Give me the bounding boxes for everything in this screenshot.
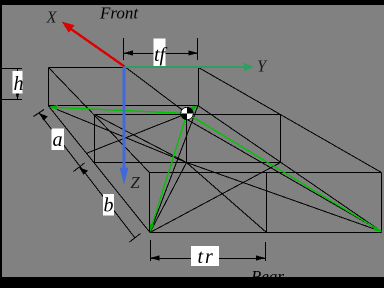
- a-b middle tick: [74, 163, 85, 172]
- body rear face bottom edge: [150, 232, 382, 234]
- svg-text:tr: tr: [198, 246, 215, 268]
- CG cross-section right edge: [280, 115, 282, 163]
- body front face right edge: [198, 68, 200, 106]
- CG cross-section top edge: [95, 114, 281, 116]
- svg-text:h: h: [14, 73, 24, 95]
- green link CG to front-right wheel: [187, 107, 196, 114]
- svg-text:X: X: [46, 8, 58, 27]
- svg-text:Rear: Rear: [250, 267, 284, 286]
- a-b middle arrowhead: [79, 167, 88, 175]
- CG vertical line: [186, 114, 188, 163]
- line origin to CG: [125, 67, 188, 114]
- CG link to rear-right wheel (black): [187, 120, 382, 232]
- a-b end tick: [130, 234, 141, 243]
- slant edge top-left: [49, 68, 150, 173]
- cross-section bottom-right to rear-left wheel: [150, 163, 281, 233]
- green arrowhead at rear-right wheel: [373, 225, 382, 231]
- dimension tr arrows: [150, 255, 159, 260]
- dimension tf extension lines: [124, 38, 198, 60]
- front-right-bottom corner to rear-left wheel: [150, 106, 198, 233]
- bottom black bar: [0, 277, 384, 288]
- dimension tf line: [124, 53, 198, 55]
- CG symbol: [181, 107, 193, 119]
- body front face top edge: [49, 67, 199, 69]
- label tr: [191, 246, 219, 266]
- CG link to left side: [86, 114, 187, 154]
- dimension tr line: [151, 258, 266, 260]
- dimension a-b line: [34, 110, 141, 243]
- label h: [13, 71, 23, 94]
- svg-text:Front: Front: [99, 4, 139, 23]
- green link CG to rear-left wheel: [151, 114, 188, 231]
- Z axis (blue arrow): [120, 67, 129, 186]
- top black bar: [0, 0, 384, 5]
- junction to rear-left wheel: [150, 163, 187, 233]
- Y axis (green arrow): [125, 63, 254, 72]
- front-left-bottom corner to junction: [49, 106, 187, 163]
- left black border: [0, 5, 2, 277]
- green arrowhead at front-right wheel: [189, 106, 198, 113]
- svg-text:Z: Z: [131, 173, 141, 192]
- green link CG to front-left wheel: [52, 107, 382, 232]
- green link CG to rear-right wheel: [187, 114, 382, 232]
- green arrowhead at rear-left wheel: [150, 224, 154, 233]
- junction to rear axle center: [187, 163, 267, 233]
- cross-section top-left to junction: [95, 115, 187, 163]
- junction to rear-right wheel: [187, 163, 382, 232]
- a-b start tick: [34, 110, 45, 117]
- X axis (red arrow): [62, 22, 125, 67]
- dimension tr extension lines: [151, 240, 266, 261]
- slant edge bottom-right: [198, 106, 382, 232]
- dimension tf arrows: [124, 50, 133, 55]
- CG cross-section left edge: [94, 115, 96, 163]
- body rear face left edge: [149, 173, 151, 233]
- body rear face right edge: [381, 173, 383, 233]
- a-b start arrowhead: [39, 113, 48, 121]
- svg-text:a: a: [53, 129, 63, 151]
- label b: [103, 194, 114, 216]
- body front face left edge: [48, 68, 50, 107]
- label tf: [154, 39, 166, 67]
- slant edge top-right: [199, 68, 382, 173]
- body rear face top edge: [150, 172, 382, 174]
- dimension h ticks: [0, 69, 22, 100]
- rear face centerline: [266, 173, 268, 233]
- green arrowhead at front-left wheel: [49, 105, 58, 110]
- slant edge bottom-left: [49, 106, 151, 233]
- label a: [52, 129, 65, 151]
- dimension h line: [17, 69, 19, 100]
- dimension h arrows: [15, 68, 19, 76]
- body front face bottom edge: [49, 105, 199, 107]
- CG cross-section bottom edge: [95, 162, 281, 164]
- svg-text:b: b: [104, 195, 114, 217]
